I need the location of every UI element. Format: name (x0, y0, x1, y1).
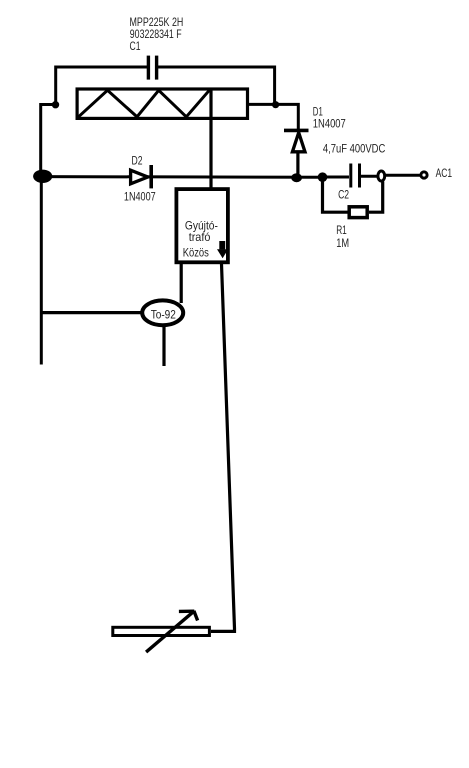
arrow head barb left (179, 610, 194, 614)
wire node to C2 left plate (322, 176, 349, 179)
wire left rail to To-92 (41, 311, 142, 314)
wire main horizontal net (42, 175, 323, 179)
capacitor C1 plates (148, 56, 156, 80)
wire left rail vertical (40, 176, 43, 365)
wire transformer bottom-right long run to bottom electrode (211, 264, 235, 631)
terminal ring node (378, 171, 385, 181)
svg-text:4,7uF 400VDC: 4,7uF 400VDC (323, 142, 385, 155)
transistor To-92 body ellipse (142, 300, 183, 325)
svg-text:C1: C1 (130, 40, 141, 53)
svg-text:1M: 1M (336, 237, 349, 250)
wire R1 right up to ring terminal (369, 182, 383, 213)
wire tap from L1 down to transformer box (209, 90, 212, 189)
svg-text:AC1: AC1 (436, 167, 453, 180)
svg-text:Közös: Közös (183, 247, 209, 260)
wire D1 anode down to main net (296, 152, 299, 178)
svg-text:trafó: trafó (189, 231, 211, 244)
svg-text:903228341 F: 903228341 F (130, 28, 182, 41)
junction node C2/R1 branch (318, 172, 328, 182)
wire from left junction down the left rail (41, 105, 56, 177)
svg-text:1N4007: 1N4007 (313, 118, 346, 131)
junction node left of L1 (52, 101, 59, 108)
svg-text:R1: R1 (336, 224, 347, 237)
wire C1 left plate to top-left corner (56, 67, 148, 105)
wire transformer bottom-left to To-92 (180, 264, 183, 303)
arrow head barb down (194, 611, 198, 621)
diode D1 triangle (292, 133, 305, 152)
wire To-92 bottom stub (162, 326, 165, 366)
junction node big left (main net) (33, 170, 52, 183)
svg-text:To-92: To-92 (151, 309, 176, 322)
arrow down inside transformer box (217, 241, 228, 258)
variable resistor / electrode box at bottom (113, 627, 210, 635)
inductor L1 zigzag winding (79, 90, 210, 117)
wire ring terminal to AC1 (386, 174, 421, 177)
wire branch node down to R1 left (323, 181, 348, 212)
resistor R1 box (349, 207, 367, 218)
svg-text:D2: D2 (132, 155, 143, 168)
diode D2 cathode bar (149, 165, 153, 188)
wire C1 right plate to top-right corner (157, 67, 275, 105)
diode D2 triangle (131, 170, 148, 184)
svg-text:C2: C2 (338, 188, 349, 201)
svg-text:D1: D1 (313, 106, 323, 119)
arrow diagonal across electrode (146, 611, 194, 652)
diode D1 cathode bar (284, 129, 309, 133)
svg-text:1N4007: 1N4007 (124, 190, 156, 203)
transformer T1 box (Gyujtotrafo) (176, 189, 228, 262)
wire L1 right edge to D1 branch corner (248, 104, 299, 129)
capacitor C2 plates (351, 164, 360, 188)
wire C2 right plate to ring terminal (361, 175, 377, 178)
terminal AC1 open circle (421, 172, 427, 178)
junction node right of L1 (272, 101, 279, 108)
junction node D1 anode at main net (291, 173, 302, 182)
inductor L1 box (MPP core choke) (77, 89, 247, 118)
